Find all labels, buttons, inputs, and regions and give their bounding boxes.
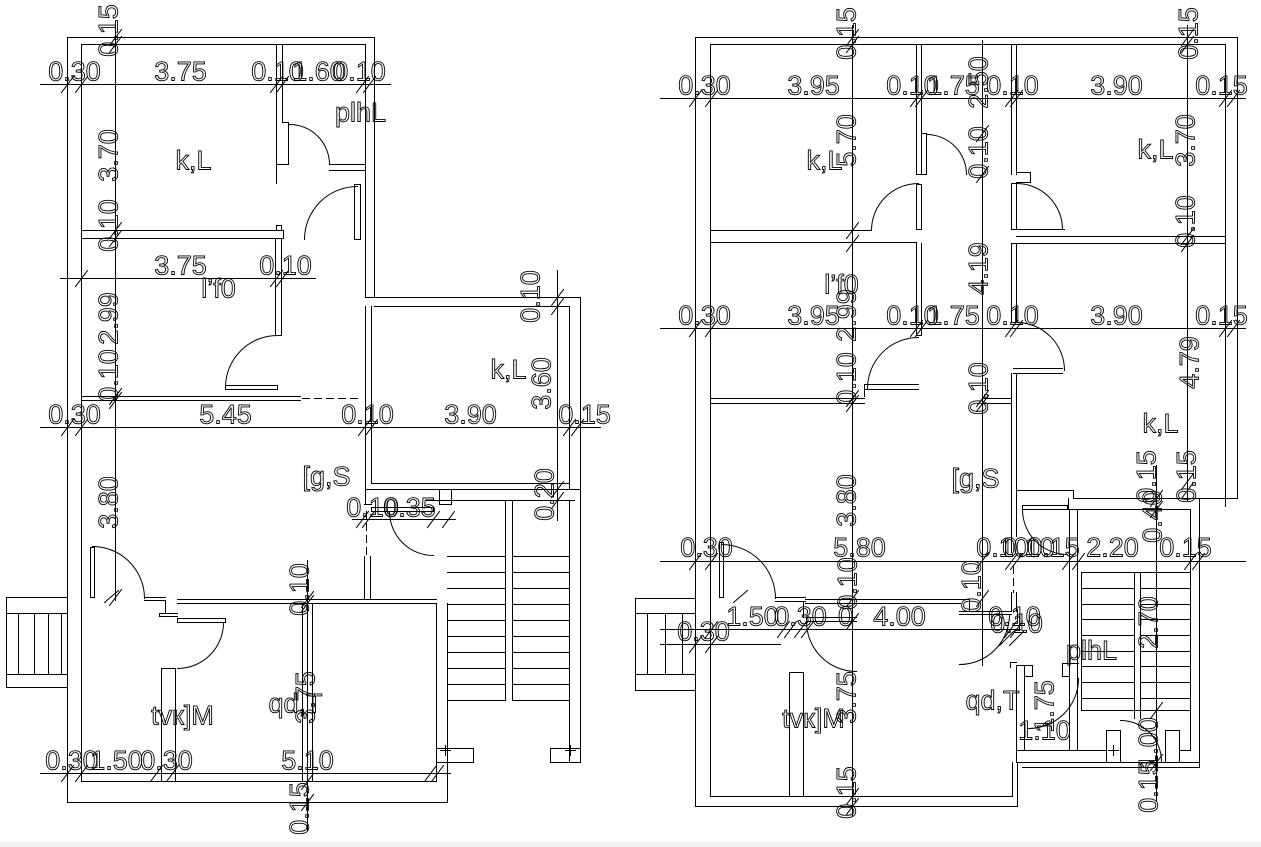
svg-text:0.10: 0.10 [957,560,987,613]
svg-text:plhL: plhL [335,98,386,128]
svg-text:qd,T: qd,T [268,689,322,719]
corridor west wall mid [916,244,918,336]
svg-text:2.50: 2.50 [964,56,994,109]
qdT door arc [178,623,224,669]
landing door leaf [1023,505,1068,507]
svg-text:0.15: 0.15 [1195,71,1248,101]
svg-text:0.10: 0.10 [1171,195,1201,248]
svg-text:0.10: 0.10 [832,352,862,405]
kLTL door arc [872,184,919,231]
dim chain corridor vertical R [982,41,984,666]
svg-text:1.50: 1.50 [726,602,779,632]
lf0R south wall [711,398,865,400]
hall east wall [1011,374,1013,553]
dim chain stair vertical R [1156,466,1158,801]
stair wall dashed opening [366,512,368,557]
wall lf0 east [275,239,277,336]
svg-text:0.10: 0.10 [259,251,312,281]
wall qdT east [436,604,438,756]
svg-text:0.30: 0.30 [678,301,731,331]
left plan outer wall north [68,37,375,39]
dim chain landing [353,519,456,521]
svg-text:4.19: 4.19 [964,242,994,295]
qdTR door leaf [960,611,1012,613]
landing door arc [390,512,434,556]
svg-text:qd,T: qd,T [965,686,1019,716]
right plan outer wall west [695,38,697,807]
svg-text:0.10: 0.10 [285,563,315,616]
entry door leaf [91,548,95,598]
corridor east wall mid [1011,244,1013,323]
corridor top door arc [927,135,967,175]
closet door jambs [1017,665,1033,667]
svg-text:4.79: 4.79 [1175,336,1205,389]
svg-text:0.30: 0.30 [140,746,193,776]
landing edge [427,500,575,502]
svg-text:l’f0: l’f0 [824,270,859,300]
svg-text:1.50: 1.50 [90,746,143,776]
tvkR door leaf [807,617,857,619]
wall TR divider [1017,229,1065,231]
closet door arc [1029,679,1079,729]
wall tvk divider R [789,673,791,797]
svg-text:1.75: 1.75 [927,301,980,331]
svg-text:l’f0: l’f0 [201,274,236,304]
svg-text:0.30: 0.30 [48,57,101,87]
dim chain top [41,84,391,86]
svg-text:tvк]M: tvк]M [151,701,214,731]
svg-text:0.10: 0.10 [94,349,124,402]
svg-text:0.15: 0.15 [1134,760,1164,813]
svg-text:3.70: 3.70 [94,129,124,182]
building entry door arc [1121,721,1162,762]
svg-text:3.80: 3.80 [94,476,124,529]
hall south wall east [806,599,970,601]
dim chain bottom [41,773,451,775]
left plan outer wall west [67,38,69,803]
svg-text:3.95: 3.95 [787,71,840,101]
svg-text:k,L: k,L [175,146,211,176]
svg-text:[g,S: [g,S [302,462,350,492]
lf0R door sill [865,384,919,386]
svg-text:5.45: 5.45 [199,400,252,430]
svg-text:3.90: 3.90 [1090,301,1143,331]
right plan outer wall north [696,37,1238,39]
kL/lf0 divider bump [276,226,278,231]
wall mid divider [302,604,304,782]
wall plhL south [277,164,289,166]
wall lf0 south [82,396,301,398]
stair newel left [438,748,474,750]
svg-text:0.15: 0.15 [1174,7,1204,60]
corridor top door jamb [926,134,928,175]
dim chain mid R [661,328,1246,330]
svg-text:0.10: 0.10 [986,301,1039,331]
plhL door jamb [288,123,290,165]
svg-text:k,L: k,L [1142,409,1178,439]
svg-text:plhL: plhL [1066,636,1117,666]
stair newel right R [1166,731,1180,763]
svg-text:3.60: 3.60 [527,357,557,410]
svg-text:0.30: 0.30 [678,71,731,101]
kLTL door leaf [917,185,922,230]
dim chain qdT vertical [307,561,309,831]
stairs R mid rails [1134,573,1136,719]
dim chain east vertical R [1187,26,1189,501]
lf0 door arc [226,336,278,388]
landing door arc right [1023,510,1068,555]
kLTR door head stub [1017,172,1031,174]
svg-text:0.40: 0.40 [1138,490,1168,543]
entry door arc [93,547,145,599]
left plan outer wall east upper [374,38,376,298]
svg-text:2.20: 2.20 [1086,533,1139,563]
wall tvk divider [161,669,163,782]
hall door leaf [355,185,361,240]
hall/stair wall [365,307,367,505]
tvkR door arc [807,622,857,672]
svg-text:0.30: 0.30 [680,533,733,563]
stair west wall [1069,510,1071,751]
qdTR door arc [960,615,1010,665]
svg-text:0.10: 0.10 [333,57,386,87]
stair newel left R [1107,731,1121,763]
dim chain west vertical R [852,26,854,816]
porch R steps [647,614,649,675]
plhL door arc [290,125,330,165]
hall north wall piece [984,398,1012,400]
kL room2 east wall [580,298,582,501]
svg-text:0.20: 0.20 [530,468,560,521]
hall south wall [178,599,437,601]
dim small 010 R [1000,632,1014,646]
kLMR south wall [1017,490,1074,492]
kLTR door leaf [1012,184,1017,230]
dim chain mid [41,427,601,429]
plhL closet west wall [1016,666,1018,763]
entry door leaf R [720,543,724,598]
page bottom band [0,842,1261,847]
entry door arc R [722,545,776,599]
qdT door leaf [178,619,226,623]
svg-text:0.10: 0.10 [964,126,994,179]
svg-text:3.90: 3.90 [444,400,497,430]
svg-text:3.80: 3.80 [832,474,862,527]
svg-text:0.10: 0.10 [516,270,546,323]
svg-text:0.10: 0.10 [986,71,1039,101]
wall TL divider [711,230,872,232]
svg-text:0.15: 0.15 [558,400,611,430]
svg-text:0.15: 0.15 [94,4,124,57]
dim chain lf0 [61,278,316,280]
entry tick R [734,591,748,603]
kL room2 south wall [372,483,570,485]
svg-text:0.10: 0.10 [990,609,1043,639]
porch R west [636,598,696,600]
svg-text:0.10: 0.10 [833,557,863,610]
svg-text:3.75: 3.75 [154,251,207,281]
left plan south wall [82,781,437,783]
svg-text:k,L: k,L [490,355,526,385]
svg-text:2.70: 2.70 [1134,596,1164,649]
svg-text:0.15: 0.15 [285,782,315,835]
stair newel right [551,748,581,750]
kLMR door sill [1014,368,1063,370]
kL room2 north wall [366,297,581,299]
svg-text:0.15: 0.15 [1195,301,1248,331]
lf0R door arc [868,338,919,389]
corridor east wall upper [1011,45,1013,175]
stairs left flight [448,556,506,558]
svg-text:tvк]M: tvк]M [782,704,845,734]
qdT right wall bits [1010,663,1012,668]
svg-text:k,L: k,L [1137,135,1173,165]
hall door arc [305,187,358,240]
right plan south wall [711,796,1013,798]
svg-text:0.15: 0.15 [832,7,862,60]
svg-text:0.30: 0.30 [774,602,827,632]
svg-text:0.15: 0.15 [1172,450,1202,503]
stairwell east wall [1190,510,1192,751]
wall plhL/kL divider [276,45,278,184]
hall south wall west [776,597,806,599]
landing jamb box [440,490,452,505]
kLMR door arc [1017,323,1065,371]
corridor west wall upper [916,45,918,175]
entry tick [105,591,119,603]
svg-text:0.15: 0.15 [832,766,862,819]
stairs R west edge [1081,573,1083,711]
svg-text:4.00: 4.00 [873,602,926,632]
stairs mid rails [505,501,507,701]
svg-text:2.99: 2.99 [94,292,124,345]
porch west [7,597,68,599]
svg-text:[g,S: [g,S [951,464,999,494]
hall east dashed opening [1013,567,1015,593]
lf0 door leaf [226,386,278,390]
dim chain east vertical [557,271,559,521]
svg-text:0.10: 0.10 [94,199,124,252]
dim chain top R [661,98,1246,100]
stairs R right flight [1141,588,1191,590]
stair east wall [569,501,571,763]
svg-text:0.15: 0.15 [1027,533,1080,563]
wall kL/lf0 divider [82,230,284,232]
svg-text:1.10: 1.10 [1018,716,1071,746]
svg-text:0.30: 0.30 [677,617,730,647]
svg-text:0.30: 0.30 [48,400,101,430]
stairs right flight [513,556,570,558]
svg-text:3.90: 3.90 [1090,71,1143,101]
stairs R top edge [1082,572,1191,574]
cased opening dashed [303,398,363,400]
dim chain west vertical [115,26,117,601]
dim chain hall R [661,561,1246,563]
right plan outer wall east [1237,38,1239,499]
svg-text:3.75: 3.75 [154,57,207,87]
dim chain porch R [661,644,781,646]
dim chain bottom R [661,629,1021,631]
svg-text:k,L: k,L [806,146,842,176]
hall south wall west jamb [145,597,166,599]
porch steps [18,614,20,675]
svg-text:0.35: 0.35 [383,493,436,523]
kLTR door arc [1017,184,1063,230]
landing door leaf [372,508,434,512]
stairwell bottom wall [1017,750,1107,752]
stair wall lower [364,557,366,600]
stairs R left flight [1082,588,1135,590]
svg-text:3.70: 3.70 [1171,114,1201,167]
svg-text:0.10: 0.10 [341,400,394,430]
svg-text:0.10: 0.10 [964,362,994,415]
stairs R bottom edge [1082,710,1191,712]
